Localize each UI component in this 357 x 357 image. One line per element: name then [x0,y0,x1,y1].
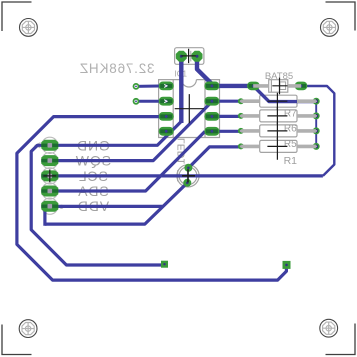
svg-text:R1: R1 [284,155,298,167]
svg-text:32.768KHZ: 32.768KHZ [79,61,155,76]
svg-text:R5: R5 [284,139,297,150]
svg-text:R6: R6 [284,124,297,135]
svg-text:R7: R7 [284,109,297,120]
